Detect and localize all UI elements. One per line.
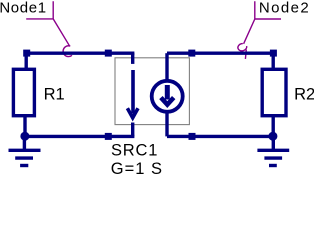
SRC1 left branch stub bottom [131, 123, 134, 137]
wire bottom-right (ground net right) [167, 135, 273, 138]
junction node left [20, 132, 29, 141]
ground right [257, 137, 289, 166]
svg-text:G=1 S: G=1 S [111, 160, 163, 178]
svg-text:Node1: Node1 [0, 0, 47, 16]
SRC1 left branch stub top [131, 53, 134, 64]
wire corner square above R1 [23, 50, 30, 57]
VCCS SRC1 outline box [115, 58, 189, 125]
svg-text:SRC1: SRC1 [111, 142, 158, 160]
SRC1 right branch stub bottom [165, 113, 168, 137]
SRC1 circle arrow [161, 85, 174, 105]
SRC1 right branch stub top [165, 53, 168, 80]
wire top-left (Node1 net) [27, 52, 135, 55]
resistor R2 [262, 53, 286, 137]
SRC1 current source circle (right branch) [152, 81, 183, 112]
wire top-right (Node2 net) [167, 52, 273, 55]
callout leader Node1 [26, 1, 76, 59]
SRC1 control arrow (left branch) [127, 70, 138, 118]
svg-text:R2: R2 [294, 85, 314, 103]
svg-text:Node2: Node2 [259, 0, 310, 16]
ground left [9, 137, 41, 166]
wire bottom-left (ground net left) [25, 135, 134, 138]
resistor R1 [13, 53, 34, 137]
callout leader Node2 [237, 1, 281, 59]
wire end square at SRC1 right top port [188, 50, 195, 57]
wire end square at SRC1 right bottom port [189, 133, 196, 140]
svg-text:R1: R1 [44, 85, 65, 103]
wire end square at SRC1 left top port [105, 50, 112, 57]
wire corner square above R2 [270, 50, 277, 57]
junction node right [268, 132, 277, 141]
wire end square at SRC1 left bottom port [105, 133, 112, 140]
